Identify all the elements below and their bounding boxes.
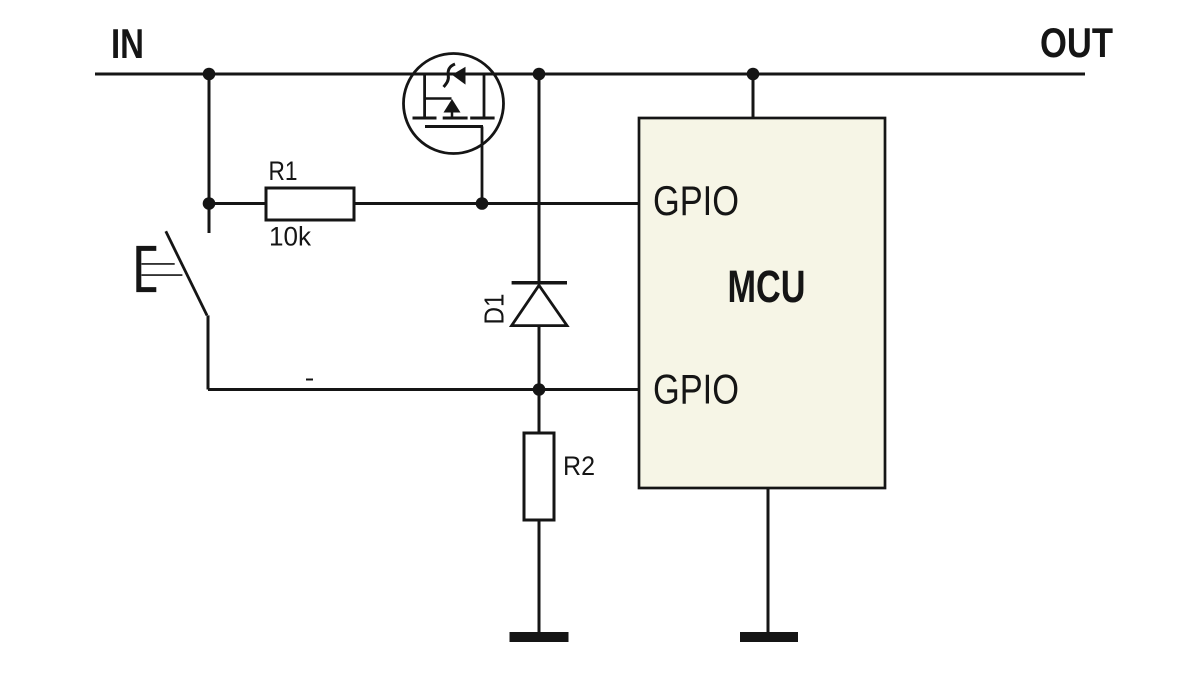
wire top rail IN to OUT bbox=[95, 73, 1085, 76]
transistor Q1 channel segment 2 bbox=[443, 117, 468, 120]
wire R2 bottom to ground bbox=[538, 520, 541, 634]
wire R1 right to MCU GPIO pin bbox=[354, 202, 639, 205]
transistor Q1 P-MOSFET body circle bbox=[404, 54, 504, 154]
svg-text:10k: 10k bbox=[269, 222, 311, 252]
IC U1 MCU box bbox=[639, 118, 885, 488]
junction at Q1 gate on R1-GPIO net bbox=[476, 197, 489, 210]
resistor R1 body bbox=[266, 188, 354, 220]
junction at D1/R2 on bottom net bbox=[533, 383, 546, 396]
transistor Q1 gate bar bbox=[425, 125, 483, 128]
switch S1 actuator prong 1 bbox=[142, 263, 175, 265]
wire bottom net to MCU lower GPIO bbox=[208, 388, 639, 391]
wire bottom net junction to R2 bbox=[538, 390, 541, 434]
transistor Q1 bulk arrow bbox=[444, 99, 461, 113]
wire top rail to MCU supply pin bbox=[752, 74, 755, 118]
svg-text:GPIO: GPIO bbox=[653, 366, 739, 413]
transistor Q1 body diode curved cathode bbox=[444, 64, 455, 87]
switch S1 actuator bracket bbox=[139, 248, 157, 289]
transistor Q1 body diode arrow bbox=[452, 67, 466, 85]
junction on top rail at D1 branch bbox=[533, 68, 546, 81]
ground bar under R2 bbox=[510, 632, 569, 642]
junction on top rail at MCU supply branch bbox=[747, 68, 760, 81]
wire D1 anode to bottom net bbox=[538, 326, 541, 390]
switch S1 fixed contact stub bbox=[208, 204, 211, 233]
svg-text:OUT: OUT bbox=[1040, 19, 1113, 66]
switch S1 actuator prong 2 bbox=[142, 274, 183, 276]
transistor Q1 source lead bbox=[423, 74, 426, 118]
switch S1 blade bbox=[166, 231, 207, 315]
wire switch bottom down to bottom net bbox=[207, 315, 210, 389]
ground bar under MCU bbox=[740, 632, 798, 642]
wire MCU ground pin down bbox=[767, 488, 770, 634]
junction at R1 left / switch branch bbox=[203, 197, 216, 210]
transistor Q1 bulk arrow stub bbox=[451, 113, 454, 119]
svg-text:R2: R2 bbox=[563, 451, 595, 481]
wire vertical from IN junction to R1 and switch contact bbox=[208, 74, 211, 233]
svg-text:D1: D1 bbox=[479, 294, 510, 325]
transistor Q1 bulk tie line bbox=[425, 97, 452, 100]
diode D1 cathode bar bbox=[512, 281, 567, 285]
wire IN junction to R1 left bbox=[209, 202, 266, 205]
svg-text:IN: IN bbox=[111, 20, 144, 67]
transistor Q1 channel segment 3 bbox=[470, 117, 494, 120]
resistor R2 body bbox=[524, 433, 554, 520]
svg-text:MCU: MCU bbox=[728, 261, 806, 312]
junction on top rail at IN branch bbox=[203, 68, 216, 81]
svg-text:GPIO: GPIO bbox=[653, 177, 739, 224]
transistor Q1 drain lead bbox=[483, 74, 486, 118]
wire D1 branch from top rail bbox=[538, 74, 541, 282]
transistor Q1 channel segment 1 bbox=[413, 117, 437, 120]
svg-text:R1: R1 bbox=[269, 156, 298, 186]
transistor Q1 gate lead down to R1 net bbox=[481, 127, 484, 204]
diode D1 triangle bbox=[512, 285, 567, 325]
stray dash mark on bottom net bbox=[306, 379, 313, 381]
